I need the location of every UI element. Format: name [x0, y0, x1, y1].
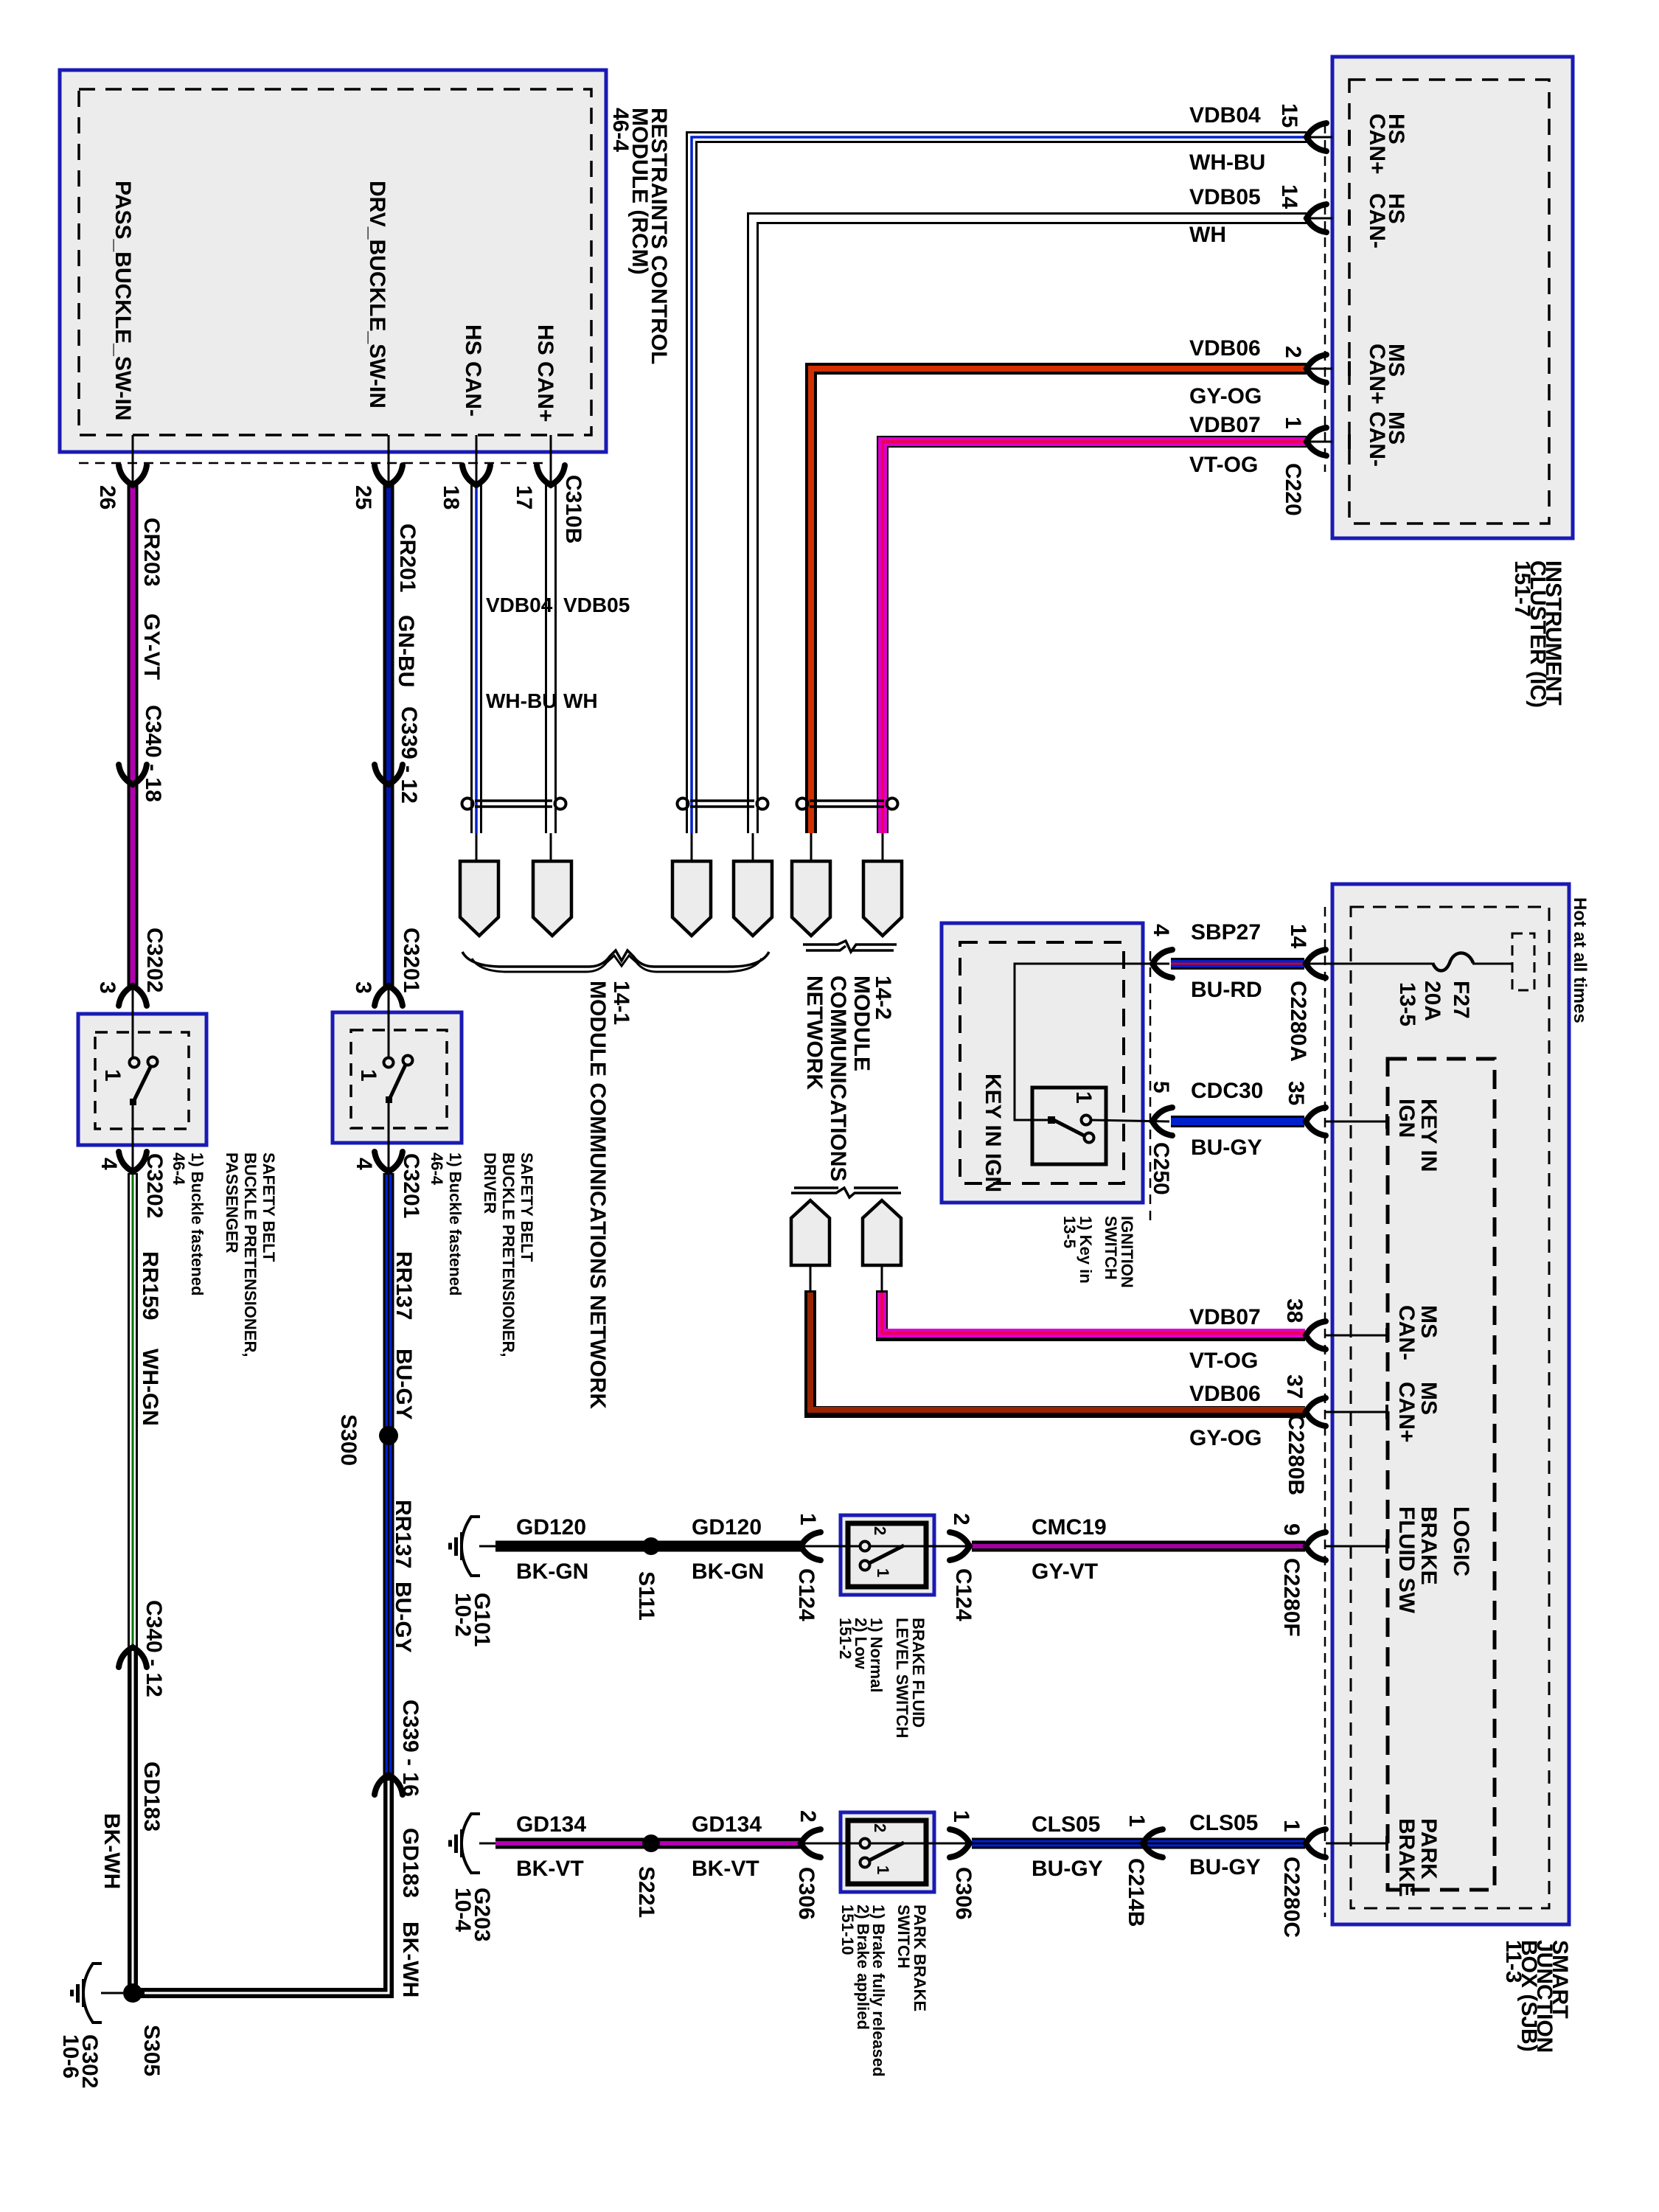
svg-text:PASS_BUCKLE_SW-IN: PASS_BUCKLE_SW-IN [111, 181, 135, 421]
ignition switch box [942, 923, 1143, 1203]
wire VDB04 WH-BU from IC pin 15 [1305, 136, 1332, 139]
wire GD134 BK-VT ground G203 to park brake switch [479, 1843, 498, 1845]
svg-text:9: 9 [1279, 1523, 1304, 1536]
svg-text:VDB04: VDB04 [486, 594, 553, 616]
wire CDC30 BU-GY SJB pin 35 to ignition pin 5 [1326, 1121, 1388, 1123]
twisted pair symbol RCM pair [475, 799, 552, 802]
svg-text:C2280F: C2280F [1279, 1558, 1304, 1637]
svg-text:WH-BU: WH-BU [486, 689, 557, 712]
svg-text:2: 2 [871, 1526, 889, 1535]
svg-text:C124: C124 [951, 1568, 975, 1621]
svg-text:C250: C250 [1149, 1142, 1173, 1195]
svg-text:CLS05: CLS05 [1189, 1811, 1258, 1835]
svg-text:S305: S305 [139, 2025, 164, 2076]
svg-text:RR159: RR159 [138, 1251, 162, 1320]
svg-text:C339 - 12: C339 - 12 [397, 706, 421, 804]
wire VDB05 WH from IC pin 14 [1305, 218, 1332, 220]
svg-text:3: 3 [95, 981, 119, 994]
svg-text:GY-VT: GY-VT [139, 613, 164, 680]
svg-text:1: 1 [874, 1568, 892, 1577]
svg-text:GD120: GD120 [692, 1515, 762, 1540]
svg-text:SBP27: SBP27 [1191, 920, 1261, 945]
svg-text:BRAKE: BRAKE [1416, 1506, 1441, 1585]
pentagon connectors row (14-1 and 14-2 network) [460, 861, 498, 936]
svg-text:C2280A: C2280A [1286, 981, 1310, 1062]
svg-text:CAN-: CAN- [1365, 411, 1389, 467]
svg-text:GD183: GD183 [139, 1761, 164, 1832]
svg-text:WH: WH [1189, 223, 1226, 247]
fuse F27 [1433, 953, 1473, 971]
svg-text:10-2: 10-2 [451, 1593, 475, 1637]
svg-text:SAFETY BELT: SAFETY BELT [518, 1152, 536, 1262]
svg-text:BUCKLE PRETENSIONER,: BUCKLE PRETENSIONER, [499, 1152, 518, 1357]
svg-text:Hot at all times: Hot at all times [1570, 897, 1590, 1023]
switch box buckle driver [333, 1012, 462, 1143]
svg-text:BU-RD: BU-RD [1191, 978, 1262, 1002]
svg-text:GN-BU: GN-BU [394, 615, 418, 687]
svg-text:GY-OG: GY-OG [1189, 384, 1262, 408]
svg-text:13-5: 13-5 [1395, 982, 1419, 1026]
svg-text:HS CAN+: HS CAN+ [533, 324, 557, 422]
ground G203 [448, 1814, 480, 1873]
svg-text:CAN-: CAN- [1365, 193, 1389, 248]
svg-text:LOGIC: LOGIC [1449, 1506, 1473, 1576]
svg-text:COMMUNICATIONS: COMMUNICATIONS [826, 975, 850, 1181]
svg-text:C124: C124 [794, 1568, 818, 1621]
svg-text:MODULE: MODULE [849, 975, 874, 1071]
connector C3201 pin 3 arrow [375, 986, 403, 1006]
svg-text:VDB05: VDB05 [1189, 185, 1261, 209]
svg-text:MS: MS [1416, 1305, 1441, 1338]
svg-text:C340 - 18: C340 - 18 [141, 705, 165, 802]
connector C339-12 arrow [375, 765, 403, 785]
park brake switch internals [860, 1839, 870, 1848]
svg-text:15: 15 [1277, 103, 1301, 128]
ground G302 [101, 1992, 123, 1994]
connector C3202 pin 3 arrow [119, 986, 147, 1006]
pentagon connectors pointing up (14-2 to SJB) [791, 1200, 829, 1265]
svg-text:2: 2 [949, 1513, 973, 1526]
svg-text:RR137: RR137 [391, 1500, 415, 1568]
svg-text:4: 4 [1149, 924, 1173, 936]
svg-text:1: 1 [874, 1865, 892, 1874]
svg-text:CAN-: CAN- [1394, 1305, 1419, 1360]
svg-text:C3202: C3202 [142, 1153, 167, 1218]
svg-text:14: 14 [1286, 924, 1310, 949]
svg-text:1: 1 [796, 1513, 820, 1526]
svg-text:3: 3 [351, 981, 375, 994]
connector C220 dashed line [1324, 124, 1326, 472]
wire VDB06 GY-OG to SJB pin 37 [810, 1265, 812, 1292]
svg-text:C306: C306 [951, 1867, 975, 1920]
svg-text:38: 38 [1282, 1298, 1307, 1323]
svg-text:10-6: 10-6 [58, 2034, 83, 2079]
switch box buckle passenger [78, 1014, 206, 1145]
wire VDB05 WH from RCM pin 17 [550, 435, 552, 485]
svg-text:CMC19: CMC19 [1032, 1515, 1107, 1540]
svg-text:C2280B: C2280B [1284, 1414, 1308, 1495]
arrows at SJB pins 14 35 38 37 9 1 [1306, 950, 1326, 978]
connector dashed line left of SJB [1324, 907, 1326, 1917]
svg-text:VDB06: VDB06 [1189, 336, 1261, 361]
svg-text:CR201: CR201 [395, 524, 420, 592]
wire GD183 BK-WH driver to S305 [133, 1776, 389, 1993]
svg-text:WH-GN: WH-GN [138, 1349, 162, 1426]
svg-text:S111: S111 [634, 1571, 658, 1621]
svg-text:NETWORK: NETWORK [802, 975, 827, 1090]
svg-text:SWITCH: SWITCH [894, 1905, 913, 1969]
brace 14-1 [462, 950, 769, 967]
svg-text:RR137: RR137 [392, 1251, 416, 1320]
connector C3201 pin 4 arrow [375, 1152, 403, 1172]
arrows at IC pins 15 14 2 1 [1307, 123, 1326, 151]
svg-text:4: 4 [352, 1158, 376, 1170]
connector C340-12 arrow [119, 1647, 147, 1667]
svg-text:BU-GY: BU-GY [391, 1582, 415, 1653]
splice S300 [379, 1426, 398, 1445]
svg-text:14: 14 [1277, 184, 1301, 209]
svg-text:CAN+: CAN+ [1394, 1382, 1419, 1443]
wire RR137 BU-GY driver switch to C339-16 [388, 1102, 390, 1174]
svg-text:CR203: CR203 [139, 518, 164, 586]
svg-text:VT-OG: VT-OG [1189, 1349, 1258, 1373]
ignition switch internals [1048, 1116, 1055, 1124]
wire VDB06 GY-OG from IC pin 2 [1305, 368, 1332, 370]
brake fluid level switch internals [860, 1542, 870, 1551]
splice S305 [123, 1983, 142, 2003]
arrow at C214B [1143, 1829, 1163, 1857]
arrows at RCM pins 26 25 18 17 [119, 465, 147, 485]
svg-text:BU-GY: BU-GY [1189, 1855, 1261, 1879]
svg-text:LEVEL SWITCH: LEVEL SWITCH [893, 1618, 911, 1738]
svg-text:DRIVER: DRIVER [481, 1152, 499, 1214]
connector C340-18 arrow [119, 765, 147, 785]
svg-text:CLS05: CLS05 [1032, 1812, 1100, 1837]
svg-text:C3201: C3201 [399, 928, 423, 992]
splice S221 [642, 1834, 660, 1852]
svg-text:10-4: 10-4 [451, 1888, 475, 1932]
svg-text:DRV_BUCKLE_SW-IN: DRV_BUCKLE_SW-IN [365, 181, 389, 408]
svg-text:VDB04: VDB04 [1189, 103, 1261, 128]
svg-text:BK-VT: BK-VT [516, 1857, 584, 1881]
module SJB box [1332, 884, 1569, 1924]
svg-text:CAN+: CAN+ [1365, 114, 1389, 175]
svg-text:C306: C306 [794, 1867, 818, 1920]
svg-text:20A: 20A [1420, 981, 1444, 1021]
svg-text:BK-WH: BK-WH [100, 1813, 124, 1889]
SJB logic inner dashed box [1388, 1059, 1495, 1890]
svg-text:1) Buckle fastened: 1) Buckle fastened [188, 1152, 206, 1295]
svg-text:2: 2 [1281, 346, 1305, 358]
svg-text:1: 1 [949, 1810, 973, 1823]
svg-text:WH-BU: WH-BU [1189, 150, 1265, 175]
switch passenger internals [130, 1058, 139, 1068]
svg-text:GY-OG: GY-OG [1189, 1426, 1262, 1450]
twisted pair symbol IC MS pair [810, 799, 884, 802]
svg-text:GD134: GD134 [516, 1812, 586, 1837]
wire RR159 WH-GN passenger switch to C340-12 [132, 1104, 134, 1174]
svg-text:17: 17 [512, 485, 536, 509]
arrows at ignition switch pins 4 5 [1152, 950, 1172, 978]
arrows at C124 pins 1 2 [801, 1532, 821, 1560]
svg-text:GY-VT: GY-VT [1032, 1559, 1098, 1584]
connector C3202 pin 4 arrow [119, 1152, 147, 1172]
svg-text:1: 1 [100, 1069, 125, 1082]
svg-text:1: 1 [1281, 417, 1305, 429]
svg-text:2: 2 [796, 1810, 820, 1823]
SJB hot bus dashed box [1512, 933, 1534, 990]
svg-text:35: 35 [1284, 1081, 1308, 1105]
svg-text:46-4: 46-4 [170, 1152, 188, 1186]
wire GD120 BK-GN ground G101 to brake fluid switch [479, 1545, 498, 1548]
svg-text:WH: WH [563, 689, 598, 712]
switch driver internals [384, 1058, 394, 1068]
wire CR203 GY-VT passenger from RCM pin 26 [132, 435, 134, 485]
svg-text:VDB06: VDB06 [1189, 1382, 1261, 1406]
svg-text:MS: MS [1416, 1382, 1441, 1415]
svg-text:S300: S300 [336, 1414, 361, 1466]
svg-text:BK-GN: BK-GN [692, 1559, 764, 1584]
connector C310B dashed line [79, 462, 547, 465]
svg-text:14-1: 14-1 [609, 981, 633, 1025]
wire VDB07 VT-OG from IC pin 1 [1305, 441, 1332, 443]
ground G101 [448, 1517, 480, 1576]
svg-text:BK-GN: BK-GN [516, 1559, 588, 1584]
svg-text:C310B: C310B [561, 475, 585, 543]
svg-text:5: 5 [1149, 1081, 1173, 1093]
svg-text:VDB07: VDB07 [1189, 413, 1261, 437]
svg-text:GD183: GD183 [398, 1828, 422, 1898]
splice S111 [642, 1537, 660, 1555]
svg-text:46-4: 46-4 [428, 1152, 446, 1186]
svg-text:46-4: 46-4 [608, 108, 633, 152]
svg-text:C214B: C214B [1124, 1858, 1148, 1927]
switch box park brake [841, 1812, 934, 1892]
svg-text:4: 4 [97, 1158, 121, 1170]
svg-text:151-7: 151-7 [1510, 560, 1534, 617]
svg-text:F27: F27 [1449, 981, 1473, 1019]
brace 14-2 upper [803, 941, 897, 952]
svg-text:151-10: 151-10 [838, 1905, 857, 1955]
svg-text:151-2: 151-2 [836, 1618, 855, 1659]
connector C339-16 arrow [375, 1775, 403, 1795]
wire SBP27 BU-RD SJB pin 14 to ignition pin 4 [1171, 958, 1304, 970]
svg-text:1: 1 [356, 1069, 380, 1082]
svg-text:VDB05: VDB05 [563, 594, 630, 616]
svg-text:37: 37 [1282, 1374, 1307, 1399]
svg-text:S221: S221 [634, 1866, 658, 1918]
arrows at C306 pins 2 1 [801, 1829, 821, 1857]
svg-text:1) Buckle fastened: 1) Buckle fastened [446, 1152, 465, 1295]
svg-text:C3201: C3201 [399, 1153, 423, 1218]
svg-text:HS CAN-: HS CAN- [461, 324, 485, 417]
svg-text:18: 18 [439, 485, 463, 509]
svg-text:SAFETY BELT: SAFETY BELT [260, 1152, 278, 1262]
svg-text:13-5: 13-5 [1060, 1216, 1079, 1248]
svg-text:PARK: PARK [1416, 1818, 1441, 1879]
svg-text:C3202: C3202 [142, 928, 167, 992]
svg-text:1: 1 [1124, 1815, 1149, 1827]
svg-text:BU-GY: BU-GY [1191, 1135, 1262, 1160]
svg-text:C339 - 16: C339 - 16 [398, 1700, 422, 1797]
svg-text:BU-GY: BU-GY [392, 1349, 416, 1420]
svg-text:25: 25 [351, 485, 375, 509]
wire VDB04 WH-BU from RCM pin 18 [476, 435, 478, 485]
svg-text:C340 - 12: C340 - 12 [142, 1600, 166, 1697]
svg-text:1: 1 [1071, 1091, 1096, 1104]
twisted pair symbol IC HS pair [690, 799, 754, 802]
wire GD183 BK-WH passenger to S305 [128, 1647, 138, 1991]
pin terminal ticks at SJB logic dashed box [1385, 1114, 1388, 1129]
svg-text:KEY IN: KEY IN [1416, 1099, 1441, 1172]
thin line ignition internal [1015, 964, 1152, 1120]
svg-text:1: 1 [1279, 1820, 1304, 1832]
svg-text:CAN+: CAN+ [1365, 344, 1389, 405]
svg-text:GD134: GD134 [692, 1812, 762, 1837]
svg-text:11-3: 11-3 [1501, 1940, 1526, 1983]
svg-text:2: 2 [871, 1823, 889, 1832]
brace 14-2 lower [791, 1188, 901, 1197]
svg-text:MODULE COMMUNICATIONS NETWORK: MODULE COMMUNICATIONS NETWORK [585, 981, 610, 1409]
wire VDB07 VT-OG to SJB pin 38 [881, 1265, 883, 1292]
switch box brake fluid level [841, 1515, 934, 1595]
wire CLS05 BU-GY C214B to SJB pin 1 [1145, 1838, 1305, 1849]
svg-text:BK-WH: BK-WH [398, 1921, 422, 1997]
pin terminal ticks at IC inner dashed box [1348, 130, 1351, 145]
svg-text:BK-VT: BK-VT [692, 1857, 759, 1881]
module RCM box [60, 70, 606, 452]
wire hot at all times to fuse F27 [1472, 963, 1512, 965]
svg-text:VT-OG: VT-OG [1189, 453, 1258, 477]
svg-text:PASSENGER: PASSENGER [223, 1152, 241, 1253]
svg-text:BU-GY: BU-GY [1032, 1857, 1103, 1881]
svg-text:BUCKLE PRETENSIONER,: BUCKLE PRETENSIONER, [241, 1152, 260, 1357]
svg-text:KEY IN IGN: KEY IN IGN [981, 1074, 1005, 1192]
svg-text:SWITCH: SWITCH [1102, 1216, 1120, 1280]
svg-text:VDB07: VDB07 [1189, 1305, 1261, 1329]
svg-text:C220: C220 [1281, 463, 1305, 516]
module IC box [1332, 57, 1573, 538]
svg-text:GD120: GD120 [516, 1515, 586, 1540]
wire CMC19 GY-VT to SJB pin 9 [972, 1541, 1305, 1552]
svg-text:26: 26 [95, 485, 119, 509]
svg-text:IGN: IGN [1394, 1099, 1419, 1138]
svg-text:C2280C: C2280C [1279, 1857, 1304, 1938]
connector C250 dashed line [1150, 951, 1152, 1224]
svg-text:BRAKE: BRAKE [1394, 1818, 1419, 1897]
svg-text:FLUID SW: FLUID SW [1394, 1506, 1419, 1614]
wire CLS05 BU-GY park brake switch to C214B [972, 1838, 1143, 1849]
svg-text:CDC30: CDC30 [1191, 1079, 1263, 1103]
wire CR201 GN-BU driver from RCM pin 25 [388, 435, 390, 485]
